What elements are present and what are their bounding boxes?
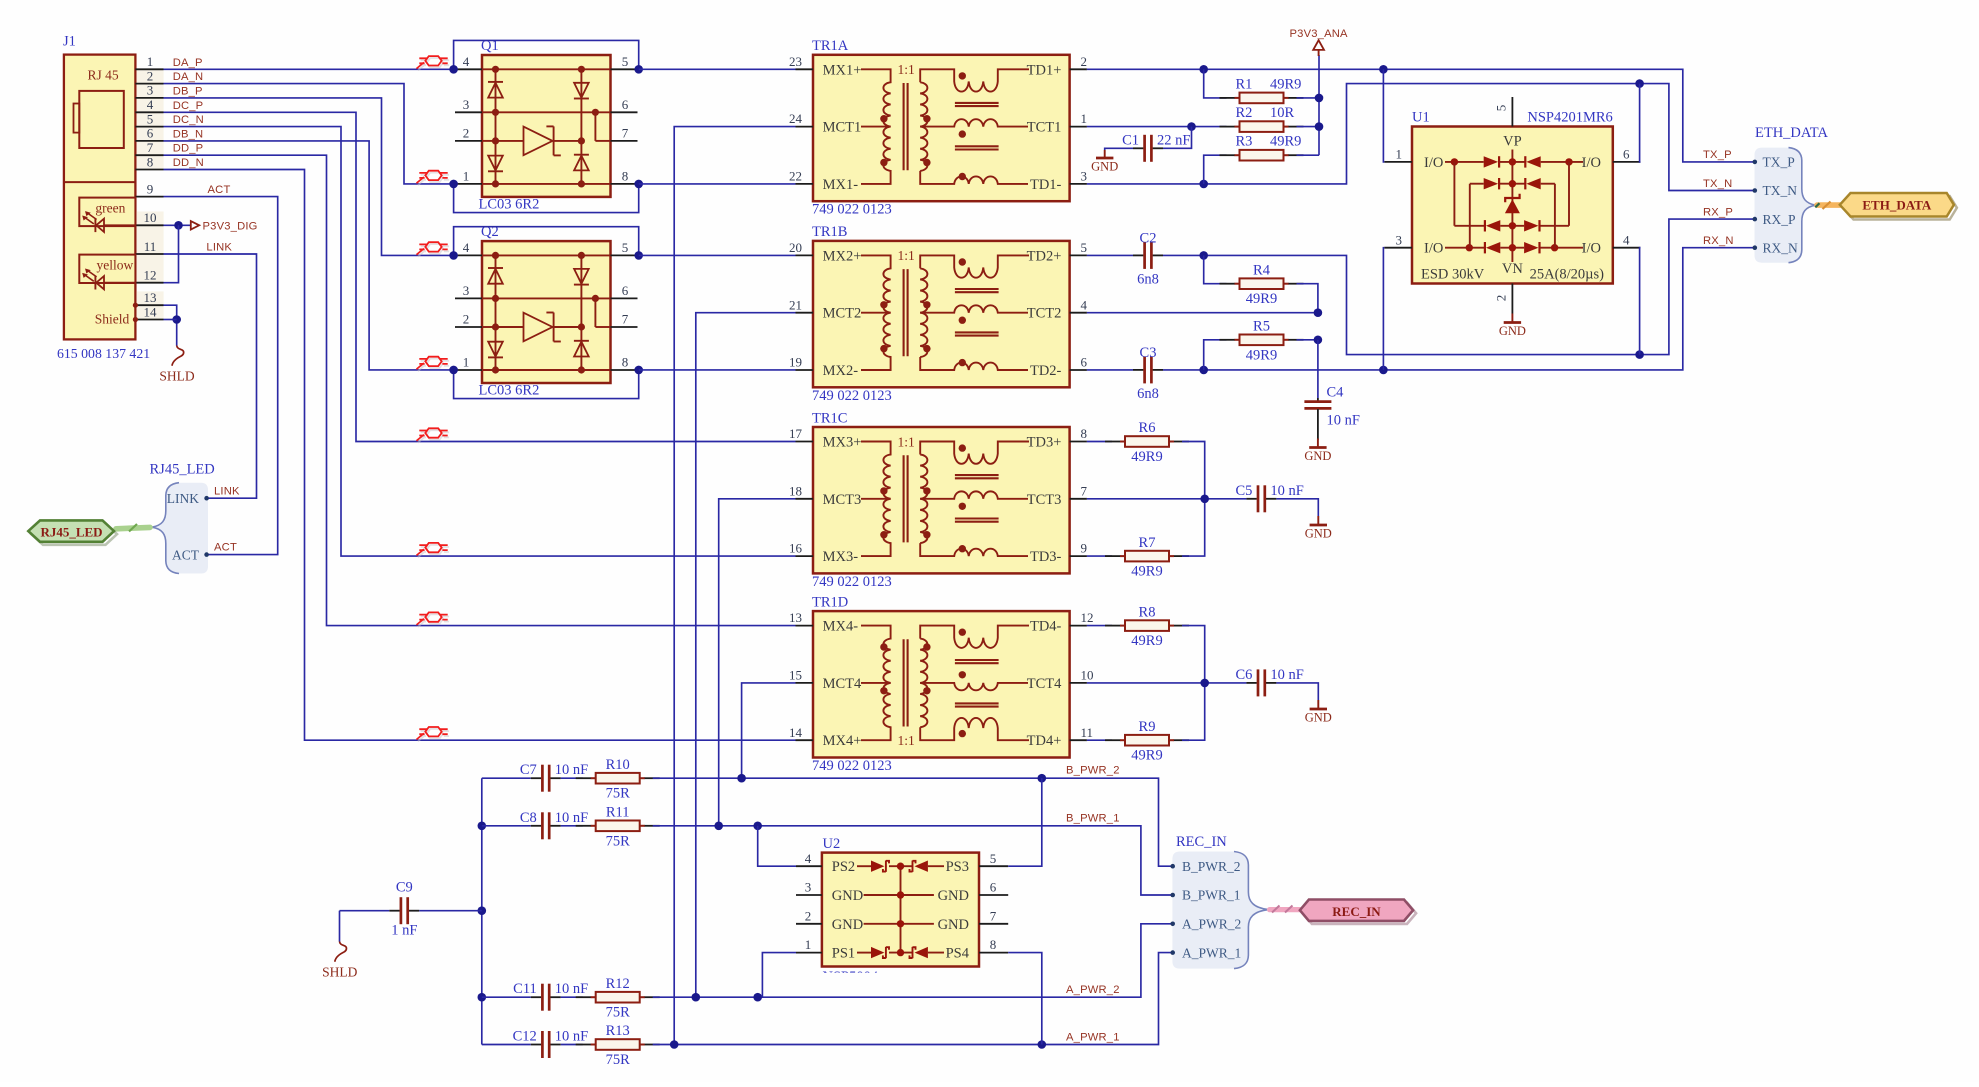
svg-text:B_PWR_1: B_PWR_1 xyxy=(1182,888,1241,903)
svg-text:4: 4 xyxy=(1623,232,1630,247)
svg-text:J1: J1 xyxy=(63,34,76,50)
LED yellow (J1) xyxy=(79,255,135,290)
svg-text:8: 8 xyxy=(147,154,154,169)
svg-text:10 nF: 10 nF xyxy=(555,981,588,997)
svg-text:DB_P: DB_P xyxy=(173,85,203,97)
svg-text:MX3-: MX3- xyxy=(823,549,859,565)
svg-text:5: 5 xyxy=(622,54,629,69)
svg-text:TR1C: TR1C xyxy=(812,410,847,426)
svg-text:LINK: LINK xyxy=(167,491,199,506)
svg-text:15: 15 xyxy=(789,668,802,683)
svg-text:8: 8 xyxy=(622,169,629,184)
svg-text:749 022 0123: 749 022 0123 xyxy=(812,758,892,774)
svg-text:16: 16 xyxy=(789,541,803,556)
svg-text:6: 6 xyxy=(1623,147,1630,162)
wire DC_P (J1.4 to TR1C.17) xyxy=(164,112,796,441)
svg-text:17: 17 xyxy=(789,426,803,441)
wire DB_N (J1.6 to Q2.1) xyxy=(164,141,454,370)
svg-text:RJ45_LED: RJ45_LED xyxy=(150,462,215,478)
svg-text:R7: R7 xyxy=(1139,535,1156,551)
svg-text:A_PWR_2: A_PWR_2 xyxy=(1182,917,1241,932)
svg-text:MX2-: MX2- xyxy=(823,363,859,379)
svg-text:9: 9 xyxy=(147,181,154,196)
wire B_PWR_2 xyxy=(653,765,1173,867)
svg-text:75R: 75R xyxy=(606,1052,631,1068)
svg-text:3: 3 xyxy=(1396,232,1403,247)
J1 pins 9-14 leads and numbers xyxy=(133,181,164,322)
svg-text:R3: R3 xyxy=(1236,134,1253,150)
wire U2.5 to B_PWR_2 xyxy=(1008,778,1042,866)
svg-text:GND: GND xyxy=(1499,324,1526,338)
svg-text:B_PWR_2: B_PWR_2 xyxy=(1182,859,1241,874)
svg-text:49R9: 49R9 xyxy=(1270,134,1301,150)
svg-text:R10: R10 xyxy=(606,757,630,773)
wire TD2- / RX_N net xyxy=(1163,235,1755,374)
svg-text:49R9: 49R9 xyxy=(1131,633,1162,649)
svg-text:4: 4 xyxy=(463,54,470,69)
svg-text:12: 12 xyxy=(144,268,157,283)
svg-text:49R9: 49R9 xyxy=(1131,748,1162,764)
svg-text:GND: GND xyxy=(938,888,969,904)
differential pair directive 3 xyxy=(418,244,449,257)
wire TD1+ / TX_P net xyxy=(1087,65,1755,162)
svg-text:I/O: I/O xyxy=(1582,241,1601,257)
svg-text:DA_N: DA_N xyxy=(173,71,204,83)
svg-text:13: 13 xyxy=(144,290,157,305)
wire TCT2 xyxy=(1087,308,1322,317)
resistor R9 49R9 xyxy=(1087,683,1205,764)
svg-text:11: 11 xyxy=(144,239,157,254)
svg-text:RX_N: RX_N xyxy=(1763,240,1799,255)
svg-text:10 nF: 10 nF xyxy=(555,810,588,826)
svg-text:GND: GND xyxy=(1091,159,1118,173)
harness REC_IN xyxy=(1170,834,1268,969)
ground GND (C6) xyxy=(1305,700,1332,724)
ground GND (C5) xyxy=(1305,516,1332,540)
harness connector RJ45_LED tag xyxy=(28,520,150,544)
svg-text:DC_N: DC_N xyxy=(173,114,204,126)
ground GND (C1) xyxy=(1091,150,1118,173)
svg-text:4: 4 xyxy=(463,240,470,255)
wire ACT (J1.9 to harness) xyxy=(164,197,278,555)
svg-text:1: 1 xyxy=(1396,147,1403,162)
svg-text:8: 8 xyxy=(990,937,997,952)
svg-text:19: 19 xyxy=(789,355,802,370)
wire DA_P (J1.1 to Q1.4) xyxy=(164,68,454,70)
wire Q1 bypass top xyxy=(449,40,643,73)
svg-text:R11: R11 xyxy=(606,805,630,821)
svg-text:R1: R1 xyxy=(1236,76,1253,92)
svg-text:TD4-: TD4- xyxy=(1030,619,1062,635)
svg-text:I/O: I/O xyxy=(1582,155,1601,171)
TVS array Q1 (LC03 6R2) xyxy=(455,38,638,212)
wire A_PWR_1 xyxy=(653,953,1173,1049)
svg-text:RX_P: RX_P xyxy=(1763,212,1796,227)
differential pair directive 5 xyxy=(418,430,449,443)
svg-text:49R9: 49R9 xyxy=(1246,347,1277,363)
TVS array Q2 (LC03 6R2) xyxy=(455,224,638,398)
svg-text:TR1D: TR1D xyxy=(812,594,848,610)
svg-text:TX_P: TX_P xyxy=(1703,149,1732,161)
svg-text:A_PWR_2: A_PWR_2 xyxy=(1066,984,1120,996)
svg-text:ETH_DATA: ETH_DATA xyxy=(1862,197,1931,212)
svg-text:TD3+: TD3+ xyxy=(1027,435,1062,451)
capacitor C4 10 nF xyxy=(1304,340,1360,440)
svg-text:U2: U2 xyxy=(823,836,841,852)
ground GND (C4) xyxy=(1304,439,1331,463)
wire shield trunk xyxy=(478,778,487,1044)
svg-text:9: 9 xyxy=(1081,541,1088,556)
LED green (J1) xyxy=(79,198,135,233)
wire pin12 to P3V3_DIG xyxy=(164,225,179,282)
svg-text:10R: 10R xyxy=(1270,105,1295,121)
svg-text:12: 12 xyxy=(1081,610,1094,625)
wire DC_N (J1.5 to TR1C.16) xyxy=(164,127,796,556)
svg-text:LINK: LINK xyxy=(206,242,232,254)
svg-text:ESD 30kV: ESD 30kV xyxy=(1421,267,1485,283)
svg-text:A_PWR_1: A_PWR_1 xyxy=(1182,945,1241,960)
svg-text:MX1+: MX1+ xyxy=(823,62,862,78)
capacitor C1 22 nF xyxy=(1105,127,1192,162)
wire Q2.5 to TR1B.20 xyxy=(639,254,796,256)
capacitor C8 10 nF xyxy=(482,810,588,840)
wire MCT2 to A_PWR_2 column xyxy=(696,313,796,998)
svg-text:13: 13 xyxy=(789,610,802,625)
svg-text:2: 2 xyxy=(147,68,154,83)
svg-text:1: 1 xyxy=(463,169,470,184)
svg-text:1:1: 1:1 xyxy=(898,62,915,77)
svg-text:C7: C7 xyxy=(520,762,537,778)
transformer TR1D (749 022 0123) xyxy=(789,594,1094,774)
wire Q2 bypass top xyxy=(449,227,643,260)
wire Q2 bypass bottom xyxy=(449,366,643,399)
wire DD_P (J1.7 to TR1D.13) xyxy=(164,155,796,625)
wire TCT4 xyxy=(1087,679,1247,688)
differential pair directive 6 xyxy=(418,545,449,558)
resistor R6 49R9 xyxy=(1087,420,1205,499)
svg-text:2: 2 xyxy=(463,312,470,327)
svg-text:20: 20 xyxy=(789,240,802,255)
svg-text:6: 6 xyxy=(622,97,629,112)
svg-text:PS4: PS4 xyxy=(946,946,970,962)
svg-text:5: 5 xyxy=(1081,240,1088,255)
resistor R1 49R9 xyxy=(1220,76,1304,103)
svg-text:C4: C4 xyxy=(1327,385,1345,401)
resistor R12 75R xyxy=(561,976,660,1021)
svg-text:TCT4: TCT4 xyxy=(1027,676,1062,692)
svg-text:6: 6 xyxy=(622,283,629,298)
svg-text:TD1+: TD1+ xyxy=(1027,62,1062,78)
wire U2.1 to A_PWR_2 xyxy=(762,953,796,998)
svg-text:C3: C3 xyxy=(1140,345,1157,361)
capacitor C11 10 nF xyxy=(482,981,588,1011)
resistor R5 49R9 xyxy=(1204,319,1323,370)
svg-text:U1: U1 xyxy=(1412,110,1430,126)
capacitor C7 10 nF xyxy=(482,762,588,792)
svg-text:TCT1: TCT1 xyxy=(1027,120,1062,136)
svg-text:749 022 0123: 749 022 0123 xyxy=(812,574,892,590)
svg-text:MX3+: MX3+ xyxy=(823,435,862,451)
svg-text:RX_N: RX_N xyxy=(1703,235,1734,247)
svg-text:49R9: 49R9 xyxy=(1270,76,1301,92)
svg-text:1: 1 xyxy=(1081,111,1088,126)
power port P3V3_ANA xyxy=(1289,28,1348,56)
diode array U2 xyxy=(796,836,1008,985)
svg-text:3: 3 xyxy=(463,97,470,112)
svg-text:C2: C2 xyxy=(1140,230,1157,246)
svg-text:10: 10 xyxy=(144,210,157,225)
svg-text:8: 8 xyxy=(622,355,629,370)
svg-text:DD_P: DD_P xyxy=(173,143,204,155)
capacitor C12 10 nF xyxy=(482,1029,588,1059)
svg-text:R6: R6 xyxy=(1139,420,1156,436)
svg-text:Shield: Shield xyxy=(95,311,130,326)
svg-text:6n8: 6n8 xyxy=(1137,386,1159,402)
svg-text:C8: C8 xyxy=(520,810,537,826)
harness ETH_DATA xyxy=(1753,125,1829,263)
svg-text:DD_N: DD_N xyxy=(173,157,204,169)
svg-text:PS3: PS3 xyxy=(946,859,969,875)
svg-text:7: 7 xyxy=(1081,483,1088,498)
svg-text:MX1-: MX1- xyxy=(823,177,859,193)
wire pins 13/14 to SHLD xyxy=(164,305,182,345)
svg-text:R13: R13 xyxy=(606,1023,630,1039)
svg-text:22: 22 xyxy=(789,169,802,184)
svg-text:ACT: ACT xyxy=(172,547,200,562)
svg-text:75R: 75R xyxy=(606,1005,631,1021)
resistor R4 49R9 xyxy=(1204,255,1318,312)
capacitor C6 10 nF xyxy=(1235,667,1318,700)
resistor R8 49R9 xyxy=(1087,604,1205,683)
svg-text:14: 14 xyxy=(144,304,158,319)
svg-text:10 nF: 10 nF xyxy=(555,1029,588,1045)
svg-text:1: 1 xyxy=(463,355,470,370)
svg-text:MX2+: MX2+ xyxy=(823,248,862,264)
svg-text:yellow: yellow xyxy=(97,258,134,273)
transformer TR1A (749 022 0123) xyxy=(789,38,1087,218)
svg-text:6: 6 xyxy=(990,880,997,895)
ground GND (U1 pin2) xyxy=(1499,314,1526,338)
svg-text:TX_N: TX_N xyxy=(1703,178,1732,190)
svg-text:TR1A: TR1A xyxy=(812,38,849,54)
svg-text:MX4+: MX4+ xyxy=(823,733,862,749)
differential pair directive 4 xyxy=(418,359,449,372)
svg-text:C9: C9 xyxy=(396,880,413,896)
connector J1 (RJ45 jack 615 008 137 421) xyxy=(57,34,164,362)
svg-text:22 nF: 22 nF xyxy=(1157,132,1190,148)
svg-text:615 008 137 421: 615 008 137 421 xyxy=(57,346,150,361)
svg-text:SHLD: SHLD xyxy=(322,965,358,980)
differential pair directive 1 xyxy=(418,58,449,71)
capacitor C9 1 nF xyxy=(340,880,482,942)
svg-text:RX_P: RX_P xyxy=(1703,206,1733,218)
svg-text:1:1: 1:1 xyxy=(898,434,915,449)
svg-text:10 nF: 10 nF xyxy=(555,762,588,778)
svg-text:REC_IN: REC_IN xyxy=(1332,904,1381,919)
ESD protector U1 NSP4201MR6 xyxy=(1384,97,1640,314)
svg-text:ACT: ACT xyxy=(208,184,231,196)
resistor R11 75R xyxy=(561,805,660,850)
svg-text:REC_IN: REC_IN xyxy=(1176,834,1227,850)
wire Q2.8 to TR1B.19 xyxy=(639,369,796,371)
svg-text:7: 7 xyxy=(147,140,154,155)
svg-text:5: 5 xyxy=(990,851,997,866)
svg-text:GND: GND xyxy=(1305,710,1332,724)
svg-text:7: 7 xyxy=(622,312,629,327)
wire MCT1 to A_PWR_1 column xyxy=(674,127,795,1045)
svg-text:R9: R9 xyxy=(1139,719,1156,735)
svg-text:24: 24 xyxy=(789,111,803,126)
net labels DA_P..DD_N xyxy=(173,57,204,169)
svg-text:18: 18 xyxy=(789,483,802,498)
svg-text:49R9: 49R9 xyxy=(1131,564,1162,580)
svg-text:I/O: I/O xyxy=(1424,155,1443,171)
svg-text:1:1: 1:1 xyxy=(898,733,915,748)
svg-text:B_PWR_1: B_PWR_1 xyxy=(1066,812,1120,824)
svg-text:MCT3: MCT3 xyxy=(823,492,862,508)
resistor R10 75R xyxy=(561,757,660,802)
svg-text:LC03 6R2: LC03 6R2 xyxy=(479,383,540,399)
resistor R13 75R xyxy=(561,1023,660,1068)
wire U1.4 to RX_P xyxy=(1639,248,1642,355)
svg-text:MX4-: MX4- xyxy=(823,619,859,635)
wire LINK (J1.11 to harness) xyxy=(164,254,257,498)
wire U1.6 to TX_N xyxy=(1639,84,1642,162)
svg-text:TR1B: TR1B xyxy=(812,224,847,240)
svg-text:5: 5 xyxy=(1494,105,1509,112)
capacitor C3 6n8 xyxy=(1087,345,1163,402)
svg-text:DB_N: DB_N xyxy=(173,128,204,140)
svg-text:MCT2: MCT2 xyxy=(823,306,862,322)
svg-text:B_PWR_2: B_PWR_2 xyxy=(1066,765,1120,777)
svg-text:6n8: 6n8 xyxy=(1137,271,1159,287)
wire U1.1 to TX_P xyxy=(1382,69,1385,162)
svg-text:C1: C1 xyxy=(1122,132,1139,148)
svg-text:VN: VN xyxy=(1502,261,1523,277)
svg-text:1:1: 1:1 xyxy=(898,248,915,263)
svg-text:A_PWR_1: A_PWR_1 xyxy=(1066,1031,1120,1043)
wire U2.8 to A_PWR_1 xyxy=(1008,953,1042,1045)
svg-text:1: 1 xyxy=(805,937,812,952)
wire P3V3_ANA rail xyxy=(1297,55,1324,155)
wire TD2+ / RX_P net xyxy=(1163,206,1755,359)
wire B_PWR_1 xyxy=(653,812,1173,895)
wire DD_N (J1.8 to TR1D.14) xyxy=(164,170,796,741)
wire Q1.5 to TR1A.23 xyxy=(639,68,796,70)
svg-text:LINK: LINK xyxy=(214,485,240,497)
svg-text:1 nF: 1 nF xyxy=(391,923,417,939)
svg-text:GND: GND xyxy=(832,888,863,904)
svg-text:75R: 75R xyxy=(606,786,631,802)
svg-text:3: 3 xyxy=(805,880,812,895)
svg-text:R8: R8 xyxy=(1139,604,1156,620)
svg-text:10 nF: 10 nF xyxy=(1327,413,1360,429)
svg-text:7: 7 xyxy=(622,126,629,141)
svg-text:C5: C5 xyxy=(1235,483,1252,499)
differential pair directive 2 xyxy=(418,173,449,186)
wire U1.3 to RX_N xyxy=(1382,248,1385,370)
svg-text:21: 21 xyxy=(789,297,802,312)
svg-text:6: 6 xyxy=(147,126,154,141)
wire MCT3 to B_PWR_1 column xyxy=(719,499,796,826)
wire Q1 bypass bottom xyxy=(449,180,643,213)
svg-text:749 022 0123: 749 022 0123 xyxy=(812,202,892,218)
svg-text:RJ45_LED: RJ45_LED xyxy=(40,525,102,540)
harness connector REC_IN tag xyxy=(1270,900,1417,924)
svg-text:RJ 45: RJ 45 xyxy=(88,68,119,83)
svg-text:DC_P: DC_P xyxy=(173,100,204,112)
svg-text:TD2+: TD2+ xyxy=(1027,248,1062,264)
svg-text:P3V3_DIG: P3V3_DIG xyxy=(203,221,258,233)
svg-text:C11: C11 xyxy=(513,981,537,997)
svg-text:3: 3 xyxy=(463,283,470,298)
harness connector ETH_DATA tag xyxy=(1815,193,1957,220)
svg-text:3: 3 xyxy=(147,83,154,98)
svg-text:4: 4 xyxy=(805,851,812,866)
transformer TR1B (749 022 0123) xyxy=(789,224,1088,404)
capacitor C2 6n8 xyxy=(1087,230,1163,287)
differential pair directive 7 xyxy=(418,614,449,627)
svg-text:8: 8 xyxy=(1081,426,1088,441)
sheet connector SHLD (J1 shield) xyxy=(159,346,195,384)
svg-text:R12: R12 xyxy=(606,976,630,992)
svg-text:VP: VP xyxy=(1503,134,1522,150)
svg-text:C12: C12 xyxy=(513,1029,537,1045)
svg-text:green: green xyxy=(95,201,125,216)
svg-text:49R9: 49R9 xyxy=(1246,291,1277,307)
svg-text:4: 4 xyxy=(147,97,154,112)
svg-text:ETH_DATA: ETH_DATA xyxy=(1755,125,1828,141)
svg-text:TCT3: TCT3 xyxy=(1027,492,1062,508)
svg-text:10 nF: 10 nF xyxy=(1270,483,1303,499)
svg-text:GND: GND xyxy=(1305,526,1332,540)
svg-text:SHLD: SHLD xyxy=(159,369,195,384)
wire R1 branch xyxy=(1204,69,1227,98)
svg-text:TD3-: TD3- xyxy=(1030,549,1062,565)
svg-text:TD4+: TD4+ xyxy=(1027,733,1062,749)
svg-text:2: 2 xyxy=(463,126,470,141)
svg-text:C6: C6 xyxy=(1235,667,1252,683)
svg-text:NSP4201MR6: NSP4201MR6 xyxy=(1527,110,1612,126)
capacitor C5 10 nF xyxy=(1235,483,1318,516)
resistor R2 10R xyxy=(1220,105,1304,132)
wire DA_N (J1.2 to Q1.1) xyxy=(164,84,454,184)
svg-text:TX_N: TX_N xyxy=(1763,183,1798,198)
svg-text:7: 7 xyxy=(990,908,997,923)
wire TD1- / TX_N net xyxy=(1087,79,1755,190)
transformer TR1C (749 022 0123) xyxy=(789,410,1088,590)
svg-text:PS1: PS1 xyxy=(832,946,855,962)
svg-text:R2: R2 xyxy=(1236,105,1253,121)
svg-text:25A(8/20µs): 25A(8/20µs) xyxy=(1530,267,1605,283)
svg-text:MCT1: MCT1 xyxy=(823,120,862,136)
sheet connector SHLD (C9) xyxy=(322,942,358,980)
svg-text:R4: R4 xyxy=(1253,262,1271,278)
wire TCT3 xyxy=(1087,495,1247,504)
svg-text:LC03 6R2: LC03 6R2 xyxy=(479,197,540,213)
svg-text:TCT2: TCT2 xyxy=(1027,306,1062,322)
svg-text:DA_P: DA_P xyxy=(173,57,203,69)
wire MCT4 to B_PWR_2 column xyxy=(742,683,796,778)
svg-text:5: 5 xyxy=(622,240,629,255)
svg-text:14: 14 xyxy=(789,725,803,740)
differential pair directive 8 xyxy=(418,729,449,742)
svg-text:I/O: I/O xyxy=(1424,241,1443,257)
svg-text:PS2: PS2 xyxy=(832,859,855,875)
svg-text:P3V3_ANA: P3V3_ANA xyxy=(1289,28,1348,40)
svg-text:749 022 0123: 749 022 0123 xyxy=(812,388,892,404)
svg-text:11: 11 xyxy=(1081,725,1094,740)
